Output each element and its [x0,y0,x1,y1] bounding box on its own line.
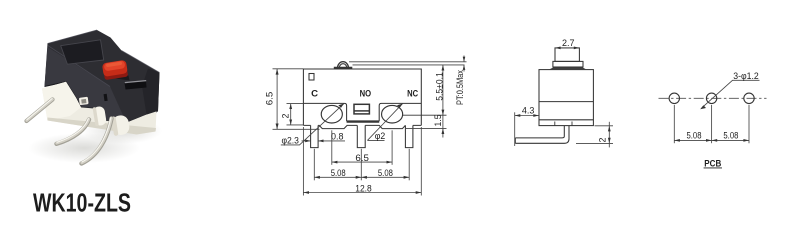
top recessed panel [61,40,104,64]
texts front view [264,69,465,193]
svg-text:WK10-ZLS: WK10-ZLS [33,190,131,218]
plunger dome [337,62,348,69]
svg-text:5.08: 5.08 [378,168,393,178]
pcb hole left [669,93,679,103]
dim line 5.08 pair [314,176,409,178]
svg-text:φ2: φ2 [375,131,386,141]
side view texts [522,38,608,142]
centre slot [354,104,369,114]
dim line 12.8 [303,192,421,194]
side view arrowheads [515,47,611,144]
svg-text:6.5: 6.5 [355,153,369,163]
pin terminal left [311,125,319,147]
body lower edge shadow [45,82,127,123]
switch body right end face [142,69,160,115]
pcb leader 3-phi1.2 [702,80,760,108]
front body bottom profile with feet [303,125,421,128]
svg-text:NC: NC [407,89,418,100]
front body outline [303,69,421,125]
svg-text:5.08: 5.08 [723,131,738,141]
side view dimension linework [515,48,613,147]
leader phi2 [367,104,402,141]
side body outline [539,70,593,126]
vent slot [104,94,108,101]
dim line 4.3 [515,115,539,117]
base boss 2 [111,114,130,136]
photo shadow [28,118,162,163]
body edge highlights [48,30,160,87]
switch body front-left face [45,47,127,123]
pcb hole right [744,93,754,103]
ext line feet bottom right [405,127,447,129]
terminal plate line right [402,114,447,116]
dim line 6.5 bottom [332,161,392,163]
cavity floor (thick) [347,120,380,122]
pcb hole middle [706,93,716,103]
pcb ext lines [673,105,675,143]
dim line 5.5 right [442,65,444,115]
side bent pin [515,126,569,144]
ext lines 2 right [595,125,614,127]
ext line top left [273,68,304,70]
side plunger shoulders [550,67,587,69]
base boss 1 [92,106,106,127]
svg-text:C: C [311,89,318,100]
side notch ticks [554,122,556,126]
pcb centerline [659,97,767,99]
pin 1 (back) [27,99,53,121]
svg-text:PT:0.5Max: PT:0.5Max [455,69,465,105]
rivet circle right [382,105,403,123]
svg-text:12.8: 12.8 [355,183,372,193]
svg-text:1.5: 1.5 [433,114,443,126]
svg-text:0.8: 0.8 [331,131,344,141]
ext verticals bottom [302,127,304,196]
ext line ledge left [287,103,304,105]
svg-text:φ2.3: φ2.3 [281,136,299,146]
svg-text:5.5±0.1: 5.5±0.1 [434,72,444,101]
dim line 2.7 [555,47,579,49]
svg-text:3-φ1.2: 3-φ1.2 [733,71,759,81]
actuator slot on top [125,81,147,90]
pcb texts [687,71,759,169]
side body lower line [539,119,593,121]
svg-text:4.3: 4.3 [522,105,535,115]
pin terminal middle [357,125,365,147]
leader phi2.3 [281,104,344,145]
svg-text:2: 2 [281,113,291,118]
ext line feet bottom left [273,128,320,130]
dim line 2 left [290,104,292,125]
side plunger [555,48,579,62]
svg-text:5.08: 5.08 [331,168,346,178]
pcb dim line 5.08 pair [674,139,749,141]
side body mid line [539,101,593,103]
ext line dome top A [349,61,467,63]
svg-text:6.5: 6.5 [264,92,274,106]
internal ledge and cavity [303,103,421,121]
red button [102,60,130,81]
svg-text:2.7: 2.7 [562,38,575,48]
ext line dome B [353,64,465,66]
switch base (white plastic) [42,82,157,135]
pin 3 (front) [82,118,112,164]
latch window with white latch [79,97,89,105]
svg-text:NO: NO [360,89,372,100]
PT dim stub [463,56,465,62]
dim line 2 right [608,122,610,148]
svg-text:2: 2 [598,137,608,142]
0.8 dim lines [302,140,311,142]
ext line body bottom left [287,124,304,126]
switch body silhouette (top face tone) [45,30,160,123]
pcb arrowheads [674,105,749,142]
rivet circle left [321,105,342,123]
pin 2 (middle) [57,119,90,144]
pin terminal right [405,125,413,147]
side plunger flange [553,61,583,67]
ext line 4.3 [514,112,516,146]
small square hole top-left [309,74,314,81]
svg-text:5.08: 5.08 [687,131,702,141]
arrowheads front view [276,57,466,194]
dimension linework: front view [273,56,467,196]
dim line 6.5 left [276,69,278,130]
dim line 1.5 right [442,115,444,137]
